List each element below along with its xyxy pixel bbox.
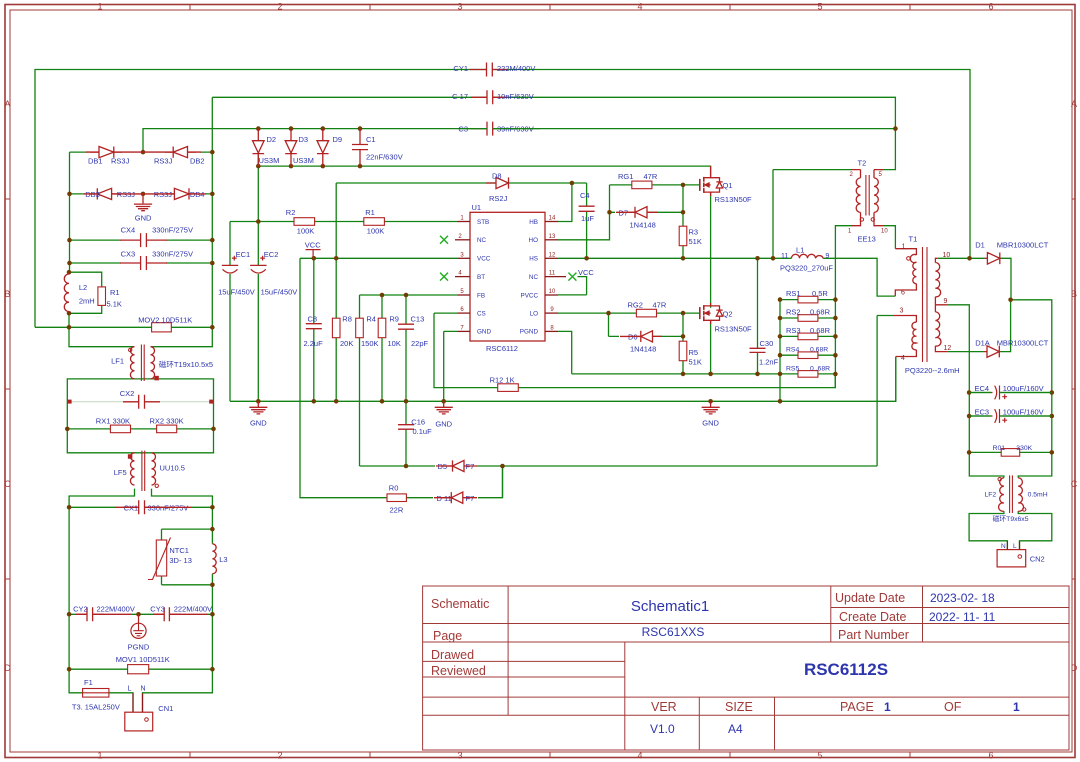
svg-text:SIZE: SIZE: [725, 700, 753, 714]
capacitor CY2: [76, 607, 104, 621]
svg-text:330nF/275V: 330nF/275V: [152, 225, 193, 234]
junction dots bridge rows: [141, 150, 146, 155]
svg-text:R8: R8: [342, 314, 352, 323]
svg-text:A: A: [4, 99, 10, 109]
svg-text:PQ3220--2.6mH: PQ3220--2.6mH: [905, 366, 960, 375]
svg-text:D3: D3: [299, 135, 309, 144]
resistor RG2: [636, 309, 656, 317]
svg-text:HS: HS: [529, 256, 538, 263]
wire EC4 row: [969, 392, 1052, 394]
svg-text:RG2: RG2: [628, 300, 643, 309]
svg-text:FB: FB: [477, 292, 485, 299]
svg-text:RS3: RS3: [786, 326, 801, 335]
diode D2: [253, 129, 265, 167]
wire LF5 bottom jogs: [69, 489, 212, 508]
IC U1 RSC6112: [455, 212, 566, 341]
svg-text:U1: U1: [472, 203, 482, 212]
resistor R5: [679, 341, 687, 361]
svg-text:N: N: [141, 686, 146, 693]
wire R9 column: [381, 295, 383, 401]
wire D7 row: [610, 211, 684, 213]
svg-text:T2: T2: [858, 159, 867, 168]
svg-text:CY2: CY2: [73, 605, 88, 614]
svg-text:1: 1: [902, 244, 906, 251]
svg-text:1: 1: [97, 2, 102, 12]
svg-text:RSC6112S: RSC6112S: [804, 660, 888, 679]
inductor L1: [792, 254, 824, 258]
svg-text:PVCC: PVCC: [521, 292, 539, 299]
svg-text:DB1: DB1: [88, 157, 103, 166]
wire CS row to R12: [434, 313, 835, 388]
svg-text:100K: 100K: [367, 227, 385, 236]
wire R5 column: [682, 313, 684, 374]
svg-text:22nF/630V: 22nF/630V: [366, 152, 403, 161]
junction dots D6 row: [681, 334, 686, 339]
wire right input rail: [151, 97, 213, 346]
svg-text:T3. 15AL250V: T3. 15AL250V: [72, 703, 120, 712]
svg-text:HB: HB: [529, 219, 538, 226]
transistor Q2: [700, 305, 704, 321]
svg-text:22pF: 22pF: [411, 339, 429, 348]
svg-text:51K: 51K: [689, 237, 702, 246]
wire D1 row: [938, 258, 1011, 300]
junction dots C3 bus: [256, 126, 261, 131]
resistor R3: [679, 226, 687, 246]
junction dots MOV2 row: [67, 325, 72, 330]
svg-text:222M/400V: 222M/400V: [497, 64, 535, 73]
no-connect X pin11: [568, 273, 576, 281]
svg-text:NC: NC: [529, 274, 539, 281]
wire R4 column to D5 row: [359, 295, 361, 466]
resistor R12: [498, 384, 519, 392]
svg-text:R2: R2: [286, 208, 296, 217]
svg-text:1N4148: 1N4148: [630, 221, 656, 230]
capacitor CX1: [123, 500, 160, 514]
svg-text:R01: R01: [993, 445, 1006, 452]
svg-text:EC4: EC4: [975, 384, 990, 393]
svg-text:GND: GND: [135, 214, 152, 223]
svg-text:GND: GND: [435, 420, 452, 429]
junction dots RS rows: [778, 297, 783, 302]
junction dots HV bus: [256, 164, 261, 169]
capacitor C8: [306, 324, 322, 329]
svg-text:磁环T9x6x5: 磁环T9x6x5: [993, 514, 1029, 523]
svg-text:CS: CS: [477, 310, 486, 317]
wire D2 column to EC2: [257, 155, 259, 402]
wire pin7 GND leg: [444, 331, 458, 401]
wire pin11 VCC jog to pin10: [558, 277, 587, 295]
svg-text:222M/400V: 222M/400V: [174, 605, 212, 614]
svg-text:HO: HO: [529, 237, 539, 244]
svg-text:10: 10: [881, 229, 888, 235]
capacitor C13: [398, 324, 414, 329]
wire CX4 row: [70, 239, 213, 241]
svg-text:EE13: EE13: [858, 235, 876, 244]
capacitor CX3: [120, 256, 167, 270]
GND symbol half-bridge: [702, 401, 720, 414]
svg-text:MOV1 10D511K: MOV1 10D511K: [116, 655, 170, 664]
svg-text:3: 3: [900, 308, 904, 315]
thermistor NTC1: [156, 540, 166, 576]
svg-text:D: D: [1071, 663, 1078, 673]
wire output plus rail: [1011, 300, 1052, 478]
svg-text:9: 9: [825, 253, 829, 260]
svg-text:D8: D8: [492, 172, 502, 181]
svg-text:Schematic: Schematic: [431, 597, 489, 611]
svg-text:0 .68R: 0 .68R: [810, 365, 830, 372]
wire EC3 row: [969, 415, 1052, 417]
text labels left section: [72, 64, 720, 713]
svg-text:330nF/275V: 330nF/275V: [148, 504, 189, 513]
svg-text:Drawed: Drawed: [431, 648, 474, 662]
wire FB row: [360, 294, 458, 296]
junction dots D1 D1A output: [967, 256, 972, 261]
wire right AC rail: [143, 507, 213, 712]
svg-text:RX2 330K: RX2 330K: [150, 417, 184, 426]
svg-text:2: 2: [277, 2, 282, 12]
svg-text:0.5R: 0.5R: [812, 289, 828, 298]
wire T2 bottom-right to T1 pin1: [883, 226, 895, 249]
resistor R01: [1001, 449, 1020, 457]
svg-text:C13: C13: [411, 314, 425, 323]
svg-text:11: 11: [781, 253, 788, 260]
svg-text:3D- 13: 3D- 13: [169, 556, 192, 565]
wire CY1 top bus: [35, 70, 970, 328]
wire R01 row: [969, 451, 1052, 453]
no-connect X pin4: [440, 273, 448, 281]
svg-text:L: L: [128, 686, 132, 693]
svg-text:RS2J: RS2J: [489, 194, 508, 203]
wire RS2 row: [780, 317, 835, 319]
svg-text:12: 12: [549, 252, 556, 258]
junction dots D5 row: [404, 464, 409, 469]
svg-text:C8: C8: [308, 314, 318, 323]
svg-text:100K: 100K: [297, 227, 315, 236]
svg-text:CX4: CX4: [121, 225, 136, 234]
svg-text:R3: R3: [689, 228, 699, 237]
wire GND rail: [230, 357, 896, 402]
wire STB row R2 R1: [230, 221, 458, 223]
junction dots NTC loop: [210, 527, 215, 532]
svg-text:A4: A4: [728, 722, 743, 736]
wire bridge DB1 row: [70, 151, 213, 153]
svg-text:0.5mH: 0.5mH: [1028, 491, 1048, 498]
inductor L2: [64, 274, 69, 312]
svg-text:C 17: C 17: [452, 92, 468, 101]
wire R3 column: [682, 185, 684, 258]
capacitor C16: [398, 425, 414, 430]
wire RS1 row: [780, 299, 835, 301]
svg-text:RS2: RS2: [786, 307, 801, 316]
svg-text:L1: L1: [796, 246, 804, 255]
svg-text:A: A: [1071, 99, 1077, 109]
svg-text:15uF/450V: 15uF/450V: [218, 287, 255, 296]
resistor R1 startup: [364, 218, 385, 226]
svg-text:D1A: D1A: [975, 338, 990, 347]
diode D11: [441, 492, 463, 503]
no-connect X pin2: [440, 236, 448, 244]
wire RS3 row: [780, 335, 835, 337]
junction dots CX1 row: [67, 505, 72, 510]
diode D3: [285, 129, 297, 167]
diode DB4: [166, 188, 197, 199]
svg-text:Create Date: Create Date: [839, 610, 906, 624]
svg-text:4: 4: [901, 355, 905, 362]
svg-text:R1: R1: [110, 288, 120, 297]
svg-text:1: 1: [97, 751, 102, 761]
svg-text:100uF/160V: 100uF/160V: [1003, 384, 1044, 393]
svg-text:RS1: RS1: [786, 289, 801, 298]
wire RS left vertical: [779, 300, 781, 402]
svg-text:0.68R: 0.68R: [810, 326, 831, 335]
svg-text:6: 6: [988, 2, 993, 12]
junction dots L2 loop: [67, 270, 72, 275]
svg-text:12: 12: [944, 345, 952, 352]
svg-text:RSC61XXS: RSC61XXS: [642, 625, 705, 639]
svg-text:CY3: CY3: [150, 605, 165, 614]
svg-text:磁环T19x10.5x5: 磁环T19x10.5x5: [159, 359, 213, 369]
diode D9: [317, 129, 329, 167]
svg-text:L2: L2: [79, 283, 87, 292]
junction dots RG1 gate: [681, 183, 686, 188]
svg-text:150K: 150K: [361, 339, 379, 348]
svg-text:13: 13: [549, 234, 556, 240]
resistor RS3: [798, 333, 818, 340]
svg-text:6: 6: [988, 751, 993, 761]
svg-text:V1.0: V1.0: [650, 722, 675, 736]
svg-text:NTC1: NTC1: [169, 546, 189, 555]
wire left column of bridge: [69, 152, 71, 272]
wire RS4 row: [780, 354, 835, 356]
wire NTC loop: [162, 529, 213, 585]
junction dots D8 row: [570, 181, 575, 186]
resistor R8: [332, 318, 340, 338]
svg-text:C30: C30: [760, 339, 774, 348]
junction dots CY row: [67, 612, 72, 617]
diode D1: [984, 253, 999, 265]
svg-text:1: 1: [1013, 700, 1020, 714]
svg-text:L3: L3: [219, 555, 227, 564]
wire pin14 HB leg: [558, 183, 572, 222]
svg-text:3: 3: [457, 751, 462, 761]
svg-text:RX1 330K: RX1 330K: [96, 417, 130, 426]
wire D1A row: [948, 300, 1011, 352]
wire RX row: [67, 428, 213, 430]
wire C3 bus: [143, 129, 895, 153]
svg-text:VER: VER: [651, 700, 677, 714]
junction dots output rails: [967, 390, 972, 395]
transformer T2: [851, 170, 883, 178]
svg-text:RG1: RG1: [618, 172, 633, 181]
svg-text:LF5: LF5: [114, 468, 127, 477]
transformer LF1: [130, 347, 134, 379]
wire T1 pin4 leg: [895, 357, 897, 402]
svg-text:10K: 10K: [388, 339, 401, 348]
svg-text:11: 11: [549, 271, 556, 277]
svg-text:4: 4: [637, 751, 642, 761]
svg-text:EC1: EC1: [236, 250, 251, 259]
svg-text:RS3J: RS3J: [154, 157, 173, 166]
svg-text:CN2: CN2: [1030, 555, 1045, 564]
svg-text:0.1uF: 0.1uF: [413, 427, 433, 436]
svg-text:BT: BT: [477, 274, 485, 281]
wire pin8 PGND leg: [558, 331, 572, 374]
svg-text:VCC: VCC: [477, 256, 491, 263]
svg-text:MOV2 10D511K: MOV2 10D511K: [138, 315, 192, 324]
varistor MOV2: [152, 323, 172, 332]
svg-text:Reviewed: Reviewed: [431, 664, 486, 678]
svg-text:47R: 47R: [644, 172, 658, 181]
capacitor C1: [352, 129, 368, 167]
wire HV bus to Q1 drain: [258, 166, 710, 178]
svg-text:GND: GND: [250, 419, 267, 428]
junction dots RG2 LO row: [606, 311, 611, 316]
wire RG1 row: [610, 185, 700, 212]
svg-text:UU10.5: UU10.5: [160, 464, 185, 473]
svg-text:VCC: VCC: [305, 241, 321, 250]
svg-text:2023-02- 18: 2023-02- 18: [930, 591, 995, 605]
capacitor CX2: [69, 401, 211, 403]
svg-text:OF: OF: [944, 700, 962, 714]
connector CN1: [125, 712, 153, 731]
transformer LF5: [130, 453, 134, 485]
junction dots GND rail: [256, 399, 261, 404]
wire LF2 bottom jogs to CN2: [969, 511, 1052, 549]
capacitor C3: [471, 122, 508, 136]
svg-text:Schematic1: Schematic1: [631, 598, 709, 615]
capacitor C30: [750, 348, 766, 352]
resistor R4: [356, 318, 364, 338]
text labels right section: [858, 159, 1049, 564]
capacitor EC3: [991, 409, 1008, 423]
svg-text:C1: C1: [366, 135, 376, 144]
power VCC: [306, 250, 321, 259]
svg-text:RS13N50F: RS13N50F: [715, 195, 753, 204]
svg-text:9: 9: [944, 298, 948, 305]
svg-text:2: 2: [277, 751, 282, 761]
connector CN2: [997, 550, 1026, 567]
svg-text:PQ3220_270uF: PQ3220_270uF: [780, 264, 833, 273]
junction dots STB row: [256, 219, 261, 224]
svg-text:C: C: [1071, 479, 1078, 489]
svg-text:PGND: PGND: [128, 643, 150, 652]
svg-text:RS5: RS5: [786, 365, 799, 372]
capacitor C17: [471, 90, 508, 104]
transformer T1: [923, 247, 928, 362]
diode DB2: [165, 147, 196, 158]
wire CX1 row: [69, 506, 212, 508]
wire MOV2 row: [35, 326, 212, 328]
svg-text:EC3: EC3: [975, 407, 990, 416]
capacitor EC2: [250, 256, 266, 273]
svg-text:R5: R5: [689, 348, 699, 357]
svg-text:GND: GND: [477, 329, 491, 336]
svg-text:VCC: VCC: [578, 268, 594, 277]
svg-text:D9: D9: [333, 135, 343, 144]
svg-text:PAGE: PAGE: [840, 700, 874, 714]
svg-text:B: B: [1071, 289, 1077, 299]
wire LO row RG2: [558, 312, 700, 314]
svg-text:D1: D1: [975, 240, 985, 249]
svg-text:PGND: PGND: [520, 329, 539, 336]
svg-text:LO: LO: [530, 310, 539, 317]
junction dots RX row: [65, 427, 70, 432]
transformer LF2: [999, 478, 1004, 511]
svg-text:MBR10300LCT: MBR10300LCT: [997, 338, 1049, 347]
svg-text:C: C: [4, 479, 11, 489]
svg-text:10nF/630V: 10nF/630V: [497, 92, 534, 101]
svg-text:10: 10: [549, 289, 556, 295]
svg-text:T1: T1: [909, 235, 918, 244]
capacitor CY1: [470, 63, 508, 77]
svg-text:N: N: [1001, 543, 1006, 550]
svg-text:Part Number: Part Number: [838, 628, 909, 642]
resistor RS5: [798, 371, 818, 378]
wire T1 pin3 lead: [877, 315, 894, 317]
wire D8 bootstrap leg and R8 column: [335, 183, 337, 401]
svg-text:1.2nF: 1.2nF: [759, 358, 779, 367]
wire VCC row: [300, 257, 458, 259]
svg-text:CX2: CX2: [120, 389, 135, 398]
wire D8 row: [336, 182, 586, 184]
capacitor EC4: [991, 386, 1008, 400]
wire C16 column: [405, 401, 407, 466]
svg-text:2.2uF: 2.2uF: [304, 339, 324, 348]
wire Q1 source to Q2 drain: [710, 192, 712, 308]
wire CX3 row: [70, 262, 213, 264]
svg-text:6: 6: [901, 290, 905, 297]
svg-text:US3M: US3M: [293, 156, 314, 165]
svg-text:CN1: CN1: [158, 704, 173, 713]
resistor R1 input: [98, 287, 106, 306]
junction dots FB row: [380, 293, 385, 298]
inductor L3: [212, 544, 216, 574]
svg-text:20K: 20K: [340, 339, 353, 348]
svg-text:2022- 11- 11: 2022- 11- 11: [929, 610, 996, 624]
svg-text:222M/400V: 222M/400V: [97, 605, 135, 614]
diode D8: [486, 177, 509, 188]
svg-text:Q2: Q2: [723, 309, 733, 318]
svg-text:1uF: 1uF: [581, 214, 594, 223]
varistor MOV1: [128, 665, 149, 674]
resistor RG1: [632, 181, 652, 189]
diode D1A: [984, 346, 999, 358]
wire PGND rail: [572, 373, 836, 375]
wire left AC rail: [69, 507, 133, 712]
wire LF1 left drop: [69, 327, 135, 346]
svg-text:DB2: DB2: [190, 157, 205, 166]
svg-text:R4: R4: [366, 314, 376, 323]
svg-text:330K: 330K: [1016, 445, 1032, 452]
wire C13 column: [405, 295, 407, 401]
resistor R0: [387, 494, 406, 502]
svg-text:F1: F1: [84, 678, 93, 687]
transistor Q1: [700, 177, 704, 193]
svg-text:Q1: Q1: [723, 181, 733, 190]
svg-text:1N4148: 1N4148: [630, 345, 656, 354]
svg-text:47R: 47R: [653, 300, 667, 309]
svg-text:L: L: [1013, 543, 1017, 550]
svg-text:2mH: 2mH: [79, 297, 95, 306]
GND symbol bridge: [134, 194, 152, 211]
wire pin9 output return: [948, 305, 1004, 478]
svg-text:GND: GND: [702, 419, 719, 428]
wire D6 row: [609, 313, 684, 336]
wire pin13 HO leg: [558, 212, 610, 240]
GND symbol pin7: [435, 401, 453, 414]
wire overlays over struck labels: [460, 129, 1052, 416]
resistor R2: [294, 218, 315, 226]
